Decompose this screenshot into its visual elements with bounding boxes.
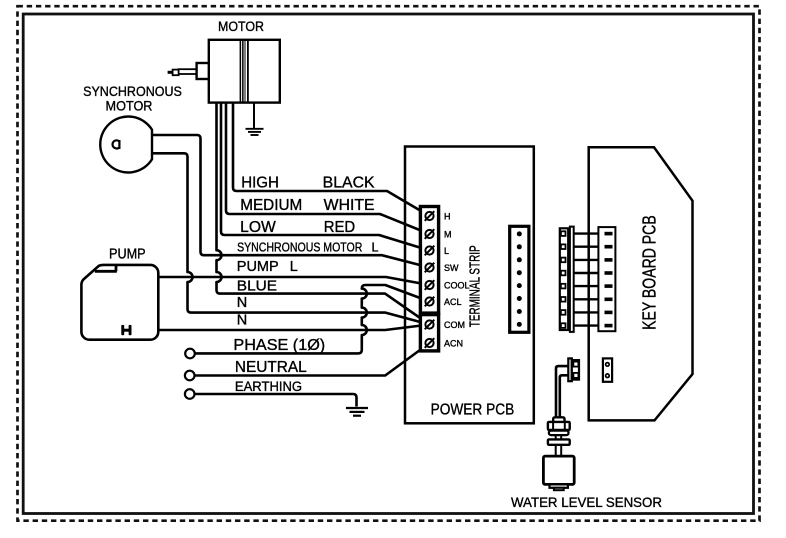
rotor mark (113, 140, 120, 149)
motor M1 body (209, 40, 280, 103)
water level sensor S1 (553, 417, 564, 422)
svg-text:ACN: ACN (444, 339, 463, 349)
svg-text:L: L (372, 241, 379, 255)
ground symbol earthing (346, 408, 368, 416)
svg-text:WHITE: WHITE (324, 197, 375, 214)
key board PCB U2 (589, 147, 693, 420)
wire N2 (pump to COM) (157, 325, 430, 331)
water sensor wires (556, 366, 568, 417)
pcb link connector left J2 (560, 228, 568, 330)
water sensor connector J4 (568, 358, 572, 381)
svg-text:COM: COM (444, 320, 465, 330)
svg-text:NEUTRAL: NEUTRAL (235, 359, 307, 376)
svg-text:PUMP: PUMP (109, 246, 146, 262)
svg-text:LOW: LOW (240, 219, 276, 236)
terminal strip block 2 (420, 315, 438, 351)
2-pin pad J5 (603, 358, 612, 381)
svg-text:POWER PCB: POWER PCB (431, 402, 515, 419)
svg-text:EARTHING: EARTHING (235, 379, 302, 394)
power PCB connector J1 (510, 226, 529, 332)
earthing terminal circle (185, 389, 195, 399)
J2 header bar (570, 227, 574, 332)
wire PUMP L (pump to COOL) (157, 277, 430, 285)
svg-text:N: N (237, 295, 247, 311)
ribbon wires (574, 234, 605, 326)
synchronous motor M2 (100, 117, 152, 173)
svg-text:SYNCHRONOUS MOTOR: SYNCHRONOUS MOTOR (237, 241, 362, 255)
wire PHASE (to ACL) (195, 285, 430, 353)
terminal screws H M L SW COOL ACL COM ACN (425, 211, 435, 348)
pump P1 body (81, 265, 158, 340)
svg-text:MOTOR: MOTOR (106, 97, 153, 113)
svg-text:L: L (444, 246, 449, 256)
svg-text:BLUE: BLUE (237, 279, 278, 295)
wire HIGH (motor to H) (233, 102, 430, 216)
wire SYNC MOTOR L (sync motor to SW) (152, 135, 430, 268)
svg-text:SW: SW (444, 263, 459, 273)
key board connector J3 (598, 227, 615, 331)
svg-text:BLACK: BLACK (323, 175, 376, 192)
svg-text:RED: RED (324, 219, 356, 236)
svg-text:WATER LEVEL SENSOR: WATER LEVEL SENSOR (511, 494, 662, 510)
wire MEDIUM (motor to M) (226, 102, 430, 234)
terminal labels (444, 212, 470, 349)
svg-text:H: H (444, 212, 451, 222)
svg-text:PHASE (1Ø): PHASE (1Ø) (233, 337, 325, 354)
J2 pins (561, 231, 566, 328)
svg-text:ACL: ACL (444, 297, 462, 307)
svg-text:M: M (444, 230, 452, 240)
pump fold corner (95, 265, 117, 271)
wire N1 (sync motor to COM) (152, 153, 430, 324)
svg-text:MEDIUM: MEDIUM (240, 197, 302, 214)
terminal strip block 1 (420, 207, 438, 314)
svg-text:KEY BOARD PCB: KEY BOARD PCB (639, 215, 659, 330)
wire EARTHING (195, 394, 357, 407)
wire NEUTRAL (to ACN) (195, 343, 430, 376)
svg-text:PUMP: PUMP (237, 259, 279, 275)
motor winding lines (240, 41, 249, 102)
svg-text:L: L (290, 259, 298, 275)
wire BLUE (motor to COM) (217, 102, 430, 325)
phase terminal circle (185, 349, 195, 359)
neutral terminal circle (185, 371, 195, 381)
svg-text:TERMINAL STRIP: TERMINAL STRIP (467, 245, 484, 327)
wire LOW (motor to L) (221, 102, 430, 251)
power PCB U1 (405, 147, 534, 424)
svg-text:HIGH: HIGH (241, 175, 279, 192)
ground under motor (253, 102, 255, 128)
svg-text:MOTOR: MOTOR (218, 19, 264, 34)
pump impeller icon (121, 325, 131, 335)
motor shaft (179, 69, 197, 74)
svg-text:N: N (237, 313, 247, 329)
